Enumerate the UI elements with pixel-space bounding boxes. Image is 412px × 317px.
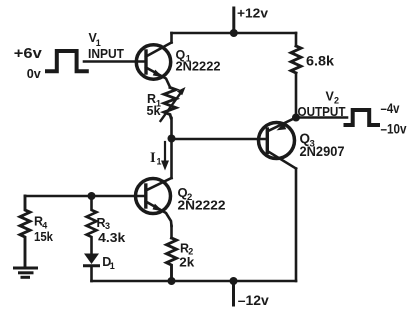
svg-text:2N2907: 2N2907 <box>300 143 345 159</box>
transistor Q2 <box>136 178 172 226</box>
svg-text:4: 4 <box>42 220 47 230</box>
svg-text:–10v: –10v <box>381 122 407 137</box>
diode D1 <box>84 254 99 282</box>
svg-text:2k: 2k <box>179 256 194 270</box>
wire output <box>296 116 347 119</box>
svg-text:+12v: +12v <box>237 6 269 21</box>
svg-text:2N2222: 2N2222 <box>176 60 221 74</box>
svg-text:–12v: –12v <box>238 292 269 308</box>
label I1 <box>150 150 162 167</box>
variable arrow of R1 <box>161 87 186 121</box>
svg-text:15k: 15k <box>34 230 53 244</box>
wire Q1 collector to top rail <box>170 33 173 43</box>
svg-text:I: I <box>150 150 156 166</box>
svg-text:+6v: +6v <box>14 45 43 62</box>
svg-text:1: 1 <box>157 157 162 167</box>
label R2 2k <box>179 241 194 269</box>
wire left bias rail <box>25 195 145 198</box>
wire Q2 emitter to R2 <box>170 226 173 238</box>
label Q2 2N2222 <box>178 185 226 213</box>
svg-text:6.8k: 6.8k <box>306 53 334 69</box>
resistor R2 <box>167 238 177 281</box>
svg-text:5k: 5k <box>147 104 161 118</box>
node V2 OUTPUT label <box>298 90 346 120</box>
wire rail to R5 <box>295 33 298 46</box>
output pulse waveform <box>346 110 379 125</box>
svg-text:INPUT: INPUT <box>88 47 124 61</box>
label Q3 2N2907 <box>300 131 345 159</box>
wire junction to Q2 collector <box>170 139 173 179</box>
wire Q3 collector to bottom rail <box>295 169 298 282</box>
+12v stub <box>232 8 235 33</box>
wire R5 to output node <box>295 73 298 118</box>
junction dot top rail <box>230 29 238 37</box>
resistor 6.8k <box>291 46 301 73</box>
input pulse waveform <box>47 51 87 71</box>
node V1 INPUT label <box>88 31 124 61</box>
junction dot R2 bottom <box>168 277 176 285</box>
resistor R4 <box>20 196 30 267</box>
svg-text:3: 3 <box>105 221 110 231</box>
svg-text:–4v: –4v <box>381 101 400 116</box>
junction dot -12v stub <box>230 277 238 285</box>
label Q1 2N2222 <box>176 48 221 74</box>
wire input to Q1 base <box>84 60 145 63</box>
label R4 15k <box>34 215 53 244</box>
svg-text:2N2222: 2N2222 <box>178 198 226 213</box>
junction dot R3 top <box>88 192 96 200</box>
resistor R1 (variable) <box>164 88 176 118</box>
-12v stub <box>232 281 235 305</box>
svg-text:4.3k: 4.3k <box>98 231 125 245</box>
transistor Q3 <box>259 118 297 169</box>
junction dot output node <box>292 114 300 122</box>
junction node dot <box>168 135 176 143</box>
current I1 arrow <box>161 142 169 171</box>
svg-text:2: 2 <box>334 96 339 106</box>
ground symbol <box>15 268 37 277</box>
top rail +12V bus <box>172 32 297 35</box>
transistor Q1 <box>136 43 171 87</box>
label R1 5k <box>147 92 162 118</box>
label D1 <box>102 255 115 271</box>
wire junction to Q3 base <box>172 138 268 141</box>
svg-text:1: 1 <box>110 261 115 271</box>
label R3 4.3k <box>97 216 126 245</box>
resistor R3 <box>87 196 97 253</box>
bottom rail -12V bus <box>92 280 297 283</box>
svg-text:0v: 0v <box>27 66 42 81</box>
wire R1 to junction <box>170 118 173 139</box>
